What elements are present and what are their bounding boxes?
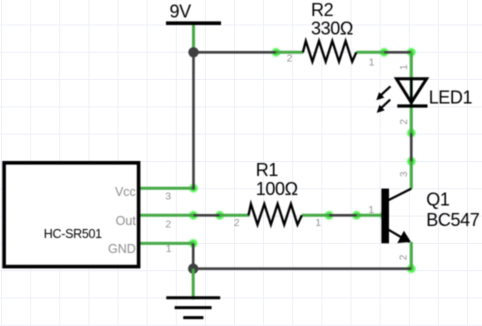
wire: GND dark vertical <box>192 243 195 268</box>
svg-text:2: 2 <box>399 254 410 260</box>
wire: green into R1 <box>220 214 250 217</box>
wire: green down through LED <box>410 52 413 133</box>
svg-text:HC-SR501: HC-SR501 <box>44 227 102 241</box>
wire: emitter down (green) <box>410 242 413 269</box>
wire: green into R2 <box>276 51 304 54</box>
wire: green to collector <box>410 161 413 189</box>
svg-text:Vcc: Vcc <box>115 185 136 199</box>
svg-text:330Ω: 330Ω <box>311 18 353 38</box>
node glow: after R2 <box>380 48 388 56</box>
svg-text:Out: Out <box>116 214 137 228</box>
junction dot (ground) <box>188 264 198 274</box>
svg-text:3: 3 <box>399 171 410 177</box>
power supply bar 9V <box>166 21 221 25</box>
svg-text:1: 1 <box>166 243 172 255</box>
wire: 9V stub (green) <box>192 24 195 52</box>
svg-text:3: 3 <box>165 191 171 203</box>
wire: bottom rail (dark) <box>193 267 411 270</box>
LED1 anode lead (black overlay) <box>410 79 412 104</box>
wire: dark to top-right corner <box>384 51 411 54</box>
node glow: before R2 <box>272 48 280 56</box>
node glow: after R1 <box>325 211 333 219</box>
node glow: bottom-right <box>407 265 415 273</box>
wire: Out dark segment <box>193 214 219 217</box>
wire: green to base <box>357 214 384 217</box>
transistor Q1 collector line <box>388 189 411 201</box>
transistor Q1 base bar <box>381 189 389 244</box>
wire: junction to R2 (dark) <box>194 51 277 54</box>
wire: Out pin (green) <box>140 214 193 217</box>
wire: green out of R2 <box>356 51 384 54</box>
svg-text:1: 1 <box>368 204 374 216</box>
svg-text:2: 2 <box>165 219 171 231</box>
wire: vertical 9V rail to Vcc (dark) <box>192 52 195 189</box>
node glow: Vcc end <box>189 184 197 192</box>
LED1 triangle <box>396 79 426 103</box>
svg-text:2: 2 <box>399 119 410 125</box>
svg-text:1: 1 <box>315 217 321 229</box>
svg-text:2: 2 <box>234 217 240 229</box>
svg-text:1: 1 <box>399 64 410 70</box>
ground symbol <box>166 298 220 318</box>
transistor Q1 emitter arrowhead <box>397 231 411 243</box>
svg-text:100Ω: 100Ω <box>256 179 298 199</box>
node glow: GND corner <box>189 239 197 247</box>
resistor R2 zigzag <box>303 41 356 62</box>
svg-text:1: 1 <box>369 57 375 69</box>
wire: GND pin (green) <box>140 242 193 245</box>
wire: green to ground symbol <box>192 269 195 300</box>
svg-text:BC547: BC547 <box>426 210 479 230</box>
node glow: top-right corner <box>407 48 415 56</box>
LED1 cathode bar <box>397 104 427 107</box>
LED1 light arrow a <box>376 86 390 100</box>
node glow: before R1 <box>216 211 224 219</box>
svg-text:LED1: LED1 <box>429 87 473 107</box>
HC-SR501 module box <box>4 163 139 267</box>
LED1 light arrow b <box>377 100 391 113</box>
wire: green out of R1 <box>302 214 329 217</box>
node glow: above collector <box>407 157 415 165</box>
node glow: Out at box <box>189 211 197 219</box>
wire: dark segment LED to collector <box>410 133 413 161</box>
svg-text:R1: R1 <box>256 160 279 180</box>
svg-text:9V: 9V <box>170 2 192 22</box>
node glow: below LED <box>407 129 415 137</box>
wire: Vcc pin (green) <box>140 187 193 190</box>
transistor Q1 emitter line <box>388 229 409 242</box>
svg-text:GND: GND <box>108 242 136 256</box>
resistor R1 zigzag <box>249 204 302 225</box>
node glow: before base <box>352 211 360 219</box>
junction dot (9V rail) <box>188 47 198 57</box>
wire: dark segment after R1 <box>329 214 356 217</box>
svg-text:R2: R2 <box>311 0 334 20</box>
svg-text:2: 2 <box>287 52 293 64</box>
svg-text:Q1: Q1 <box>426 190 450 210</box>
node glow: at base <box>380 211 388 219</box>
